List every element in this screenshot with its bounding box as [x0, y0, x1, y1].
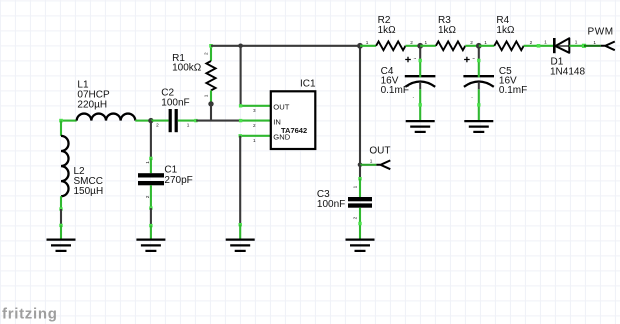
svg-text:2: 2 — [410, 40, 413, 45]
wire L2 to ground green — [60, 196, 62, 209]
wire C4 upper lead green — [419, 59, 421, 78]
svg-text:OUT: OUT — [369, 146, 390, 157]
wire green to C1 — [150, 158, 152, 173]
svg-text:1kΩ: 1kΩ — [378, 25, 397, 36]
wire C4 node to R3 — [420, 45, 436, 47]
C5 pin marks — [471, 56, 475, 99]
svg-text:2: 2 — [470, 40, 473, 45]
OUT net label — [369, 146, 390, 157]
fritzing watermark — [2, 306, 58, 323]
node endpoint square IN — [239, 119, 242, 122]
node GND stub endpoint — [239, 134, 242, 137]
wire IN stub green — [241, 120, 271, 122]
svg-text:1: 1 — [204, 94, 209, 97]
svg-text:~: ~ — [472, 56, 475, 61]
svg-text:1kΩ: 1kΩ — [496, 25, 515, 36]
wire C1 down green — [150, 185, 152, 208]
wire GND vertical dark — [239, 136, 241, 225]
svg-text:1: 1 — [370, 158, 373, 163]
wire C5 node down dark — [478, 46, 480, 59]
wire C5 upper lead green — [478, 59, 480, 78]
wire R1 bottom to main line — [210, 104, 212, 121]
node C4 junction dot — [417, 43, 423, 49]
R2 labels — [378, 15, 397, 36]
connector OUT fork — [376, 160, 390, 169]
C2 labels — [161, 87, 189, 108]
inductor L2 — [61, 136, 69, 196]
wire dark segment — [60, 209, 62, 225]
svg-text:150µH: 150µH — [74, 186, 104, 197]
R3 pin numbers — [424, 40, 473, 45]
svg-text:1kΩ: 1kΩ — [438, 25, 457, 36]
svg-text:fritzing: fritzing — [2, 306, 58, 323]
node endpoint square — [194, 119, 197, 122]
ground C4 — [406, 121, 435, 132]
svg-text:1: 1 — [593, 40, 596, 45]
svg-text:100nF: 100nF — [317, 199, 345, 210]
wire dark green to PWM — [584, 45, 601, 47]
node endpoint square — [419, 103, 422, 106]
node OUT junction dot — [358, 163, 363, 168]
wire node A down dark — [150, 121, 152, 159]
C4 pin marks — [413, 56, 417, 99]
node endpoint square — [149, 206, 152, 209]
wire C5 to ground — [478, 89, 480, 120]
C1 pin numbers — [145, 161, 150, 199]
capacitor C3 — [348, 197, 372, 208]
svg-text:IC1: IC1 — [300, 79, 316, 90]
IC1 part number TA7642 — [281, 126, 307, 135]
svg-text:1: 1 — [575, 40, 578, 45]
wire to IC ground — [239, 225, 241, 239]
D1 labels — [550, 57, 585, 78]
node endpoint square — [59, 224, 62, 227]
connector PWM fork — [601, 42, 615, 51]
wire dark segment — [150, 208, 152, 226]
wire green to ground — [60, 225, 62, 239]
D1 pin numbers — [544, 40, 596, 45]
capacitor C5 top plate — [463, 75, 494, 77]
svg-text:PWM: PWM — [588, 26, 614, 37]
wire dark C2-IC segment — [196, 120, 240, 122]
PWM net label — [588, 26, 614, 37]
svg-text:GND: GND — [273, 132, 290, 141]
wire C2 to IC segment green — [178, 120, 196, 122]
node endpoint square — [149, 157, 152, 160]
node C5 junction dot — [476, 43, 482, 49]
wire rail to R2 — [360, 45, 376, 47]
node OUT stub endpoint — [239, 104, 242, 107]
svg-text:1: 1 — [424, 40, 427, 45]
OUT stub pin number — [370, 158, 373, 163]
svg-text:2: 2 — [204, 52, 209, 55]
svg-text:1: 1 — [353, 185, 358, 188]
R1 pin numbers — [204, 52, 209, 97]
svg-text:~: ~ — [414, 56, 417, 61]
ground C5 — [464, 121, 493, 132]
resistor R1 — [206, 46, 215, 104]
svg-text:OUT: OUT — [273, 102, 289, 111]
R1 labels — [172, 53, 202, 74]
svg-text:2: 2 — [145, 195, 150, 198]
wire C3 to ground — [359, 208, 361, 239]
wire R4 to D1 — [524, 45, 555, 47]
node endpoint square — [477, 103, 480, 106]
IC1 pin names — [273, 102, 290, 141]
R4 pin numbers — [484, 40, 532, 45]
capacitor C2 — [169, 109, 178, 132]
C3 pin numbers — [353, 185, 358, 219]
C2 pin numbers — [156, 122, 190, 127]
ground C3 — [346, 240, 375, 251]
capacitor C5 bottom plate arc — [464, 81, 494, 89]
L1 labels — [77, 79, 110, 110]
L2 labels — [74, 166, 104, 197]
node endpoint square — [537, 44, 541, 48]
ground IC1 — [226, 240, 255, 251]
op-amp IC1 box — [271, 91, 316, 149]
capacitor C4 plus sign — [405, 57, 411, 63]
C5 labels — [499, 66, 527, 96]
svg-text:1: 1 — [145, 161, 150, 164]
diode D1 — [554, 38, 569, 53]
wire left end to L1 — [61, 120, 77, 122]
capacitor C5 plus sign — [464, 57, 470, 63]
wire R3 to C5 node — [465, 45, 479, 47]
wire OUT pin stub — [241, 105, 271, 107]
wire green to C3 — [359, 179, 361, 197]
node left corner endpoint — [59, 119, 63, 123]
wire L1 to node A — [135, 120, 151, 122]
svg-text:1: 1 — [544, 40, 547, 45]
wire vertical rail to OUT pin — [240, 46, 242, 106]
node R1 bottom junction dot — [208, 101, 213, 106]
node endpoint square — [582, 44, 586, 48]
wire OUT node to C3 dark — [359, 165, 361, 179]
wire C4 node down dark — [419, 46, 421, 59]
node endpoint square — [477, 59, 480, 62]
node rail T junction — [238, 44, 243, 49]
node endpoint square — [239, 223, 242, 226]
wire left down to L2 — [60, 121, 62, 136]
R4 labels — [496, 15, 515, 36]
R3 labels — [438, 15, 457, 36]
svg-text:1: 1 — [253, 138, 256, 143]
svg-text:100nF: 100nF — [161, 97, 189, 108]
C1 labels — [164, 165, 192, 186]
inductor L1 — [77, 114, 136, 121]
wire C4 to ground — [419, 89, 421, 120]
svg-text:1N4148: 1N4148 — [550, 66, 585, 77]
node A junction dot — [148, 118, 153, 123]
svg-text:2: 2 — [530, 40, 533, 45]
wire GND pin stub — [240, 135, 271, 137]
svg-text:2: 2 — [156, 122, 159, 127]
node endpoint square — [358, 177, 361, 180]
IC1 label — [300, 79, 316, 90]
svg-text:2: 2 — [353, 216, 358, 219]
svg-text:220µH: 220µH — [77, 99, 107, 110]
wire green to ground — [150, 226, 152, 239]
C4 labels — [381, 66, 409, 96]
wire R2 to C4 node — [406, 45, 421, 47]
wire vertical rail junction down to OUT node — [359, 46, 361, 165]
svg-text:0.1mF: 0.1mF — [381, 85, 409, 96]
svg-text:2: 2 — [253, 123, 256, 128]
svg-text:3: 3 — [253, 108, 256, 113]
svg-text:0.1mF: 0.1mF — [499, 85, 527, 96]
wire OUT connector stub — [360, 164, 376, 166]
resistor R4 — [494, 41, 523, 50]
wire node A to C2 — [151, 120, 169, 122]
R1 top endpoint — [209, 44, 213, 48]
ground C1 — [136, 240, 165, 251]
svg-text:1: 1 — [484, 40, 487, 45]
ground L2 — [47, 240, 76, 251]
svg-text:1: 1 — [366, 40, 369, 45]
R2 pin numbers — [366, 40, 414, 45]
node endpoint square — [59, 207, 62, 210]
node rail junction dot — [357, 43, 363, 49]
svg-text:1: 1 — [187, 122, 190, 127]
node endpoint square — [358, 222, 361, 225]
svg-text:100kΩ: 100kΩ — [172, 63, 202, 74]
node endpoint square — [419, 59, 422, 62]
wire D1 to PWM bright — [569, 45, 584, 47]
svg-text:270pF: 270pF — [164, 175, 192, 186]
node endpoint square — [149, 224, 152, 227]
capacitor C4 top plate — [405, 75, 436, 77]
C3 labels — [317, 189, 345, 210]
wire C5 node to R4 — [479, 45, 495, 47]
wire top rail — [211, 45, 360, 47]
resistor R3 — [436, 41, 465, 50]
resistor R2 — [376, 41, 405, 50]
svg-text:IN: IN — [273, 117, 281, 126]
capacitor C4 bottom plate arc — [405, 81, 435, 89]
capacitor C1 — [138, 173, 164, 185]
IC1 pin numbers — [253, 108, 256, 143]
